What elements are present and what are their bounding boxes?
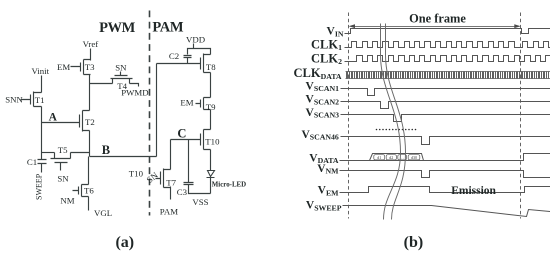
caption (b) <box>404 234 424 251</box>
one-frame arrow <box>349 24 521 28</box>
label EM (T3 gate) <box>57 62 70 72</box>
svg-text:A: A <box>49 112 58 124</box>
label VDD <box>186 34 205 44</box>
label V_SCAN46 <box>301 129 338 142</box>
title PWM <box>99 20 136 36</box>
waveform V_SCAN1 <box>341 89 550 96</box>
svg-text:One frame: One frame <box>409 11 466 25</box>
svg-text:T10: T10 <box>205 137 220 147</box>
svg-text:PWM: PWM <box>99 20 136 36</box>
label EM (T9 gate) <box>180 97 193 107</box>
wire node A to T2 gate <box>42 122 80 124</box>
svg-text:PAM: PAM <box>152 20 183 36</box>
svg-text:C: C <box>177 127 186 141</box>
transistor T5 <box>51 153 71 171</box>
wire T2 source down to node B <box>89 131 91 157</box>
wire T5 right lead to B vertical <box>71 152 90 154</box>
waveform V_SCAN2 <box>341 102 550 109</box>
svg-text:. .: . . <box>401 155 404 160</box>
label T5 <box>58 145 68 155</box>
svg-text:d30: d30 <box>411 155 417 160</box>
transistor T8 <box>201 54 211 73</box>
caption (a) <box>115 234 134 251</box>
wire T1 source to node A <box>41 107 43 123</box>
wire T9 source to T10 drain <box>210 110 212 130</box>
wire node B up to T8 gate line <box>156 64 158 157</box>
label SN (T4 gate) <box>115 63 127 73</box>
wire Vref stem <box>90 49 92 61</box>
svg-text:Vinit: Vinit <box>32 66 50 76</box>
wire VDD stem and rail <box>188 44 211 55</box>
waveform V_DATA baseline <box>340 154 550 161</box>
label SN (T7 gate, diagonal) <box>145 170 161 185</box>
label CLK_DATA <box>293 66 341 81</box>
label T10 (wire annotation) <box>129 169 144 179</box>
title PAM <box>152 20 183 36</box>
label T6 <box>84 185 94 195</box>
label Vref <box>83 39 99 49</box>
svg-text:PWMD: PWMD <box>121 87 148 97</box>
label Emission <box>451 185 496 197</box>
svg-text:SN: SN <box>57 174 69 184</box>
wire Vinit stem to T1 drain <box>41 76 43 93</box>
svg-text:Vref: Vref <box>83 39 99 49</box>
svg-text:T2: T2 <box>85 117 95 127</box>
label T4 <box>117 81 127 91</box>
waveform V_EM <box>340 187 550 193</box>
svg-text:d1: d1 <box>377 155 381 160</box>
svg-text:(a): (a) <box>115 234 134 251</box>
wire T10 source to LED anode <box>210 150 212 171</box>
transistor T10 <box>201 130 211 150</box>
label V_DATA <box>309 152 339 165</box>
label T1 <box>35 95 45 105</box>
wire T8 gate line from B <box>157 63 201 65</box>
svg-text:T8: T8 <box>206 62 216 72</box>
time-break curve 2 <box>386 24 406 220</box>
wire T6 source to VGL <box>88 197 90 211</box>
svg-text:NM: NM <box>60 195 74 205</box>
svg-text:T5: T5 <box>58 145 68 155</box>
svg-text:SWEEP: SWEEP <box>34 173 43 200</box>
svg-text:B: B <box>102 143 110 157</box>
wire T6 drain up to node B <box>88 157 90 185</box>
svg-text:Emission: Emission <box>451 185 496 197</box>
wire LED cathode to VSS <box>210 178 212 194</box>
time-break curve 1 <box>381 24 401 220</box>
label V_SCAN3 <box>306 107 340 120</box>
waveform V_NM <box>340 171 550 178</box>
svg-text:T3: T3 <box>85 62 95 72</box>
svg-text:T10: T10 <box>129 169 144 179</box>
label PAM (input) <box>160 207 178 217</box>
label V_SWEEP <box>306 200 342 213</box>
node C label <box>177 127 186 141</box>
label T3 <box>85 62 95 72</box>
wire node A down to C1/T5 <box>41 123 43 160</box>
node B label <box>102 143 110 157</box>
svg-text:T6: T6 <box>84 185 94 195</box>
ellipsis dots between scan rows <box>376 129 417 131</box>
wire T4 left lead to T3/T2 junction <box>90 83 113 85</box>
wire T7 source down to PAM input <box>170 187 172 200</box>
wire T8 source to T9 drain <box>210 73 212 98</box>
waveform V_SCAN3 <box>341 115 550 122</box>
label VSS <box>192 197 208 207</box>
svg-text:d2: d2 <box>389 155 393 160</box>
label C2 <box>169 51 179 61</box>
frame right dashed line <box>520 13 522 219</box>
transistor T2 <box>80 111 90 132</box>
capacitor C2 <box>184 56 192 58</box>
label T10 <box>205 137 220 147</box>
label V_EM <box>318 185 340 198</box>
micro-LED diode <box>207 171 215 178</box>
V_DATA data boxes <box>374 155 420 160</box>
label SN (T5 gate) <box>57 174 69 184</box>
wire T3 source down to T2 drain <box>89 75 91 111</box>
svg-text:C1: C1 <box>27 157 37 167</box>
svg-text:CLK2: CLK2 <box>311 51 342 66</box>
capacitor C1 <box>38 160 47 164</box>
svg-text:C3: C3 <box>177 187 188 197</box>
svg-text:PAM: PAM <box>160 207 178 217</box>
svg-text:VDD: VDD <box>186 34 205 44</box>
wire C3 bottom to VSS rail <box>189 185 211 194</box>
wire node B horizontal <box>90 156 157 158</box>
label C3 <box>177 187 188 197</box>
label One frame <box>409 11 466 25</box>
PWM/PAM boundary dashed line <box>149 11 151 216</box>
transistor T6 <box>73 185 89 197</box>
capacitor C3 <box>184 183 194 185</box>
label PWMD <box>121 87 148 97</box>
node A label <box>49 112 58 124</box>
wire T5 left lead <box>42 152 55 154</box>
svg-text:CLK1: CLK1 <box>311 37 342 52</box>
label T2 <box>85 117 95 127</box>
label C1 <box>27 157 37 167</box>
label V_IN <box>327 26 344 39</box>
transistor T7 <box>156 169 171 188</box>
label T7 <box>166 177 176 187</box>
waveform V_SWEEP <box>343 206 550 217</box>
svg-text:T7: T7 <box>166 177 176 187</box>
label V_SCAN1 <box>306 80 340 93</box>
transistor T3 <box>71 60 91 75</box>
svg-text:VGL: VGL <box>94 208 112 218</box>
label V_NM <box>317 163 339 176</box>
label VGL <box>94 208 112 218</box>
wire C1 bottom lead <box>41 164 43 173</box>
label Micro-LED <box>212 182 246 189</box>
svg-text:T1: T1 <box>35 95 45 105</box>
waveform CLK_DATA band <box>346 72 550 79</box>
svg-text:EM: EM <box>57 62 70 72</box>
waveform V_DATA burst envelope <box>370 154 424 161</box>
transistor T4 <box>111 72 133 84</box>
label SWEEP (rotated) <box>34 173 43 200</box>
wire node C to C3 <box>188 140 190 183</box>
transistor T9 <box>196 98 211 110</box>
svg-text:C2: C2 <box>169 51 179 61</box>
transistor T1 <box>21 92 42 107</box>
wire T7 drain up to node C <box>170 140 172 170</box>
label Vinit <box>32 66 50 76</box>
label SNN <box>5 94 23 104</box>
label V_SCAN2 <box>306 94 340 107</box>
svg-text:SN: SN <box>115 63 127 73</box>
svg-text:EM: EM <box>180 97 193 107</box>
wire C2 bottom to T8 gate line <box>187 58 189 64</box>
wire node C to T10 gate <box>171 139 201 141</box>
svg-text:VSS: VSS <box>192 197 208 207</box>
svg-text:Micro-LED: Micro-LED <box>212 182 246 189</box>
waveform CLK_1 <box>345 42 550 48</box>
label NM <box>60 195 74 205</box>
wire T4 right lead PWMD stub <box>130 84 139 87</box>
waveform V_SCAN46 <box>341 137 550 145</box>
svg-text:(b): (b) <box>404 234 424 251</box>
waveform CLK_2 <box>345 56 550 62</box>
label T8 <box>206 62 216 72</box>
label CLK_1 <box>311 37 342 52</box>
label CLK_2 <box>311 51 342 66</box>
waveform V_IN <box>345 29 550 34</box>
label T9 <box>206 102 216 112</box>
frame left dashed line <box>348 13 350 219</box>
